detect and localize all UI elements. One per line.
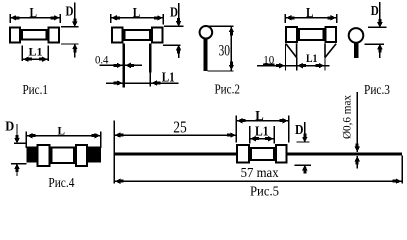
svg-text:10: 10 [263, 54, 274, 66]
svg-text:D: D [5, 120, 14, 135]
svg-text:57 max: 57 max [241, 165, 279, 180]
svg-text:Рис.3: Рис.3 [364, 83, 390, 98]
fuse F3 right cap [325, 27, 336, 42]
fuse F2 left lead wire [123, 43, 126, 87]
dimension L1 (fig5) arrows [250, 136, 273, 141]
dimension 0.4 (fig2) line [99, 64, 142, 66]
fuse F5 right cap [276, 145, 286, 163]
fuse F3 right blade lead [325, 43, 336, 57]
dimension D (fig2) extension lines [163, 3, 183, 58]
svg-text:D: D [295, 123, 304, 138]
fuse F2 side view lead wire [204, 38, 208, 71]
fuse F3 body [299, 29, 323, 40]
dimension D (fig4) arrows [14, 135, 19, 172]
dimension L (fig5) arrows [237, 118, 288, 123]
dimension D (fig4) extension lines [11, 124, 26, 176]
dimension L1 (fig1) extension lines [22, 46, 48, 62]
dimension L1 (fig2) line [106, 82, 179, 84]
dimension L1 (fig1) arrows [23, 57, 48, 62]
dimension D (fig3) arrows [377, 19, 382, 53]
svg-text:Рис.4: Рис.4 [48, 176, 74, 191]
dimension L (fig4) line [26, 131, 101, 148]
dimension Ø0,6 max (fig5) arrows [355, 143, 360, 164]
fuse F4 left cap [38, 145, 50, 166]
svg-text:D: D [371, 4, 379, 19]
dimension L1 (fig2) right extension line [149, 73, 151, 87]
svg-text:L: L [306, 6, 314, 21]
dimension extension ticks (fig3) [286, 44, 326, 71]
dimension D (fig3) extension lines [364, 2, 386, 58]
dimension 25 (fig5) arrows [115, 132, 236, 137]
svg-text:L1: L1 [255, 125, 269, 140]
fuse F5 left lead wire [114, 152, 236, 155]
svg-text:Рис.2: Рис.2 [214, 82, 240, 97]
fuse F4 left metal end (solid) [26, 146, 37, 162]
svg-text:L1: L1 [29, 46, 43, 58]
dimension D (fig1) arrows [72, 18, 77, 52]
dimension 30 (fig2) arrows [229, 27, 234, 71]
fuse F2 right lead wire [149, 43, 151, 72]
dimension L1 (fig2) arrows [114, 80, 161, 85]
dimension D (fig2) arrows [176, 18, 181, 54]
dimension 0.4 (fig2) arrows [114, 63, 134, 68]
svg-text:0.4: 0.4 [95, 55, 109, 67]
svg-text:L: L [133, 6, 141, 21]
svg-text:Рис.5: Рис.5 [250, 184, 279, 196]
svg-text:L1: L1 [306, 53, 318, 65]
svg-text:L: L [30, 6, 38, 21]
dimension 10 / L1 (fig3) shared line [257, 65, 330, 67]
fuse F1 body [22, 30, 47, 40]
dimension 25 (fig5) line [114, 116, 236, 184]
fuse F3 left cap [286, 27, 297, 42]
dimension D (fig5) arrows [302, 134, 307, 174]
fuse F2 side view loop (circle) [200, 26, 213, 39]
fuse F4 right cap [76, 145, 87, 166]
dimension 10 (fig3) underline [263, 63, 275, 65]
dimension L1 (fig5) line [250, 126, 275, 144]
fuse F3 side view lead wire [354, 42, 358, 58]
dimension L (fig4) arrows [27, 133, 101, 138]
fuse F3 side view loop (circle) [349, 28, 364, 43]
dimension 30 (fig2) extension lines [208, 26, 234, 71]
fuse F1 right cap [48, 28, 58, 43]
dimension D (fig1) extension lines [61, 3, 79, 58]
fuse F2 right cap [152, 27, 163, 42]
dimension Ø0,6 max (fig5) lines [356, 92, 358, 169]
svg-text:D: D [66, 5, 74, 20]
svg-text:L: L [255, 109, 264, 124]
dimension L (fig2) line [111, 14, 164, 25]
fuse F4 body [52, 148, 74, 163]
svg-text:L: L [58, 123, 66, 137]
dimension L (fig2) arrows [111, 15, 163, 20]
fuse F3 left blade lead [286, 43, 297, 57]
dimension 57 max (fig5) arrows [115, 179, 402, 184]
fuse F5 left cap [237, 145, 249, 163]
svg-text:Ø0,6 max: Ø0,6 max [342, 95, 354, 139]
dimension 57 max (fig5) line [114, 156, 402, 184]
fuse F5 body [251, 148, 274, 160]
dimension D (fig5) extension lines [295, 122, 311, 174]
dimension L (fig3) line [285, 14, 336, 23]
dimension L (fig1) arrows [11, 15, 60, 20]
fuse F4 right metal end (solid) [88, 146, 101, 162]
fuse F5 right lead wire [287, 152, 402, 155]
fuse F2 body [125, 30, 151, 40]
svg-text:25: 25 [173, 117, 187, 136]
dimension L (fig3) arrows [286, 15, 336, 20]
fuse F2 left cap [112, 27, 123, 42]
dimension L (fig5) line [236, 116, 288, 143]
svg-text:L1: L1 [162, 70, 175, 85]
dimension L (fig1) line [10, 14, 60, 23]
svg-text:30: 30 [219, 42, 231, 59]
svg-text:D: D [170, 5, 178, 20]
svg-text:Рис.1: Рис.1 [22, 83, 48, 98]
fuse F1 left cap [10, 28, 20, 43]
dimension 10 / L1 (fig3) arrows [276, 63, 324, 68]
